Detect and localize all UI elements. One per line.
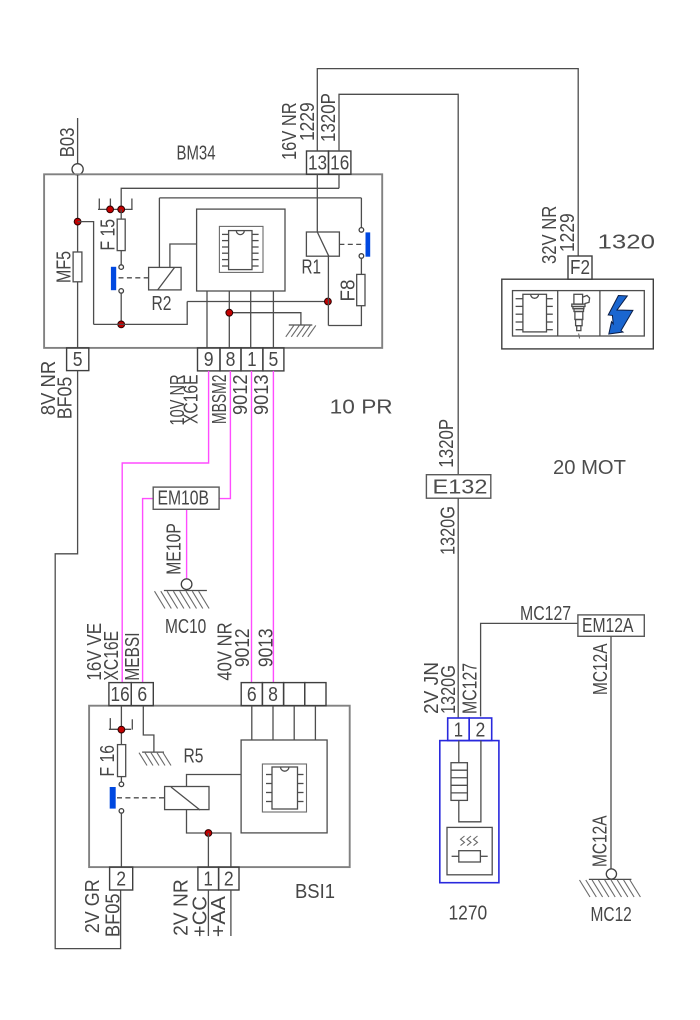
label 16V VE bbox=[84, 623, 106, 681]
label MC127 bbox=[520, 603, 571, 625]
caption 1320 bbox=[598, 232, 656, 254]
wire R2 top right to IC box bbox=[170, 244, 197, 267]
wire pin16 down (BSI) bbox=[120, 706, 122, 745]
label BSI1 bbox=[295, 881, 335, 903]
svg-text:2: 2 bbox=[224, 869, 234, 891]
label MC12A lower bbox=[590, 815, 612, 867]
wire pin16 to E132 (1320P) bbox=[339, 94, 458, 474]
pin 6 box (BSI left) bbox=[131, 683, 153, 706]
wire R2 top to F8 switch bbox=[159, 197, 361, 199]
wire 9013 (pin5b to BSI) bbox=[272, 371, 274, 683]
svg-text:8: 8 bbox=[268, 684, 278, 706]
svg-text:1270: 1270 bbox=[449, 903, 488, 925]
terminal tick right (BSI) bbox=[131, 719, 133, 729]
label R2 bbox=[152, 293, 172, 315]
label 1320G lower bbox=[438, 665, 460, 714]
ECU box BSI1 bbox=[89, 706, 350, 867]
label MC12A upper bbox=[590, 643, 612, 695]
fuse F8 bbox=[357, 274, 365, 305]
svg-text:1229: 1229 bbox=[557, 213, 579, 252]
op-amp U1 body bbox=[229, 231, 252, 270]
pin 2 box (1270) bbox=[469, 718, 492, 742]
svg-text:6: 6 bbox=[247, 684, 257, 706]
svg-text:2: 2 bbox=[476, 720, 486, 742]
junction dot bottom left node bbox=[118, 321, 125, 328]
label MBSM2 bbox=[209, 375, 231, 425]
wire blank pin2 to IC bbox=[314, 706, 316, 740]
fuse MF5 bbox=[73, 252, 82, 282]
divider 1320 cell1/2 bbox=[557, 291, 559, 336]
svg-text:MC10: MC10 bbox=[165, 616, 206, 638]
pin blank box 2 bbox=[305, 683, 326, 706]
label 16V NR bbox=[279, 102, 301, 160]
capacitor bar blue (R2 switch) bbox=[111, 267, 116, 290]
junction dot MF5 branch bbox=[74, 218, 81, 225]
ground bar (BSI) bbox=[142, 751, 164, 753]
pin blank box 1 bbox=[284, 683, 305, 706]
svg-text:1320P: 1320P bbox=[436, 419, 458, 468]
ground hatch (BSI) bbox=[139, 753, 171, 766]
svg-text:13: 13 bbox=[308, 153, 327, 175]
svg-text:1: 1 bbox=[454, 720, 463, 742]
wire 10V XC16E (pin9 to BSI pin16) bbox=[122, 371, 208, 683]
ground circle MC12 bbox=[606, 869, 616, 879]
pin 13 box (BM34 top) bbox=[307, 151, 329, 175]
wire R1 bottom bbox=[327, 256, 329, 325]
injector icon (1320) bbox=[572, 294, 590, 338]
label 2V JN bbox=[421, 662, 443, 714]
svg-text:EM12A: EM12A bbox=[582, 615, 634, 637]
wire 9012 (pin1 to BSI) bbox=[251, 371, 253, 683]
dashed link R1 to switch bbox=[339, 243, 364, 245]
label MF5 bbox=[54, 251, 76, 283]
op-amp U1 outer bbox=[219, 226, 263, 272]
label +AA bbox=[208, 895, 230, 937]
label R5 bbox=[184, 746, 204, 768]
wire MEBSI (EM10B to BSI pin6) bbox=[143, 499, 154, 683]
ground bar MC10 bbox=[164, 590, 207, 592]
svg-text:XC16E: XC16E bbox=[181, 375, 203, 425]
label 1270 bbox=[449, 903, 488, 925]
pin 6 box (BSI 40V) bbox=[241, 683, 262, 706]
svg-text:F 16: F 16 bbox=[97, 745, 119, 777]
wire switch to bottom node bbox=[120, 293, 122, 324]
junction dot terminal B bbox=[118, 206, 125, 213]
label F8 bbox=[338, 280, 360, 302]
svg-text:B03: B03 bbox=[57, 128, 79, 158]
switch contact upper (BSI) bbox=[119, 782, 124, 787]
wire MF5 from B03 circle bbox=[77, 175, 79, 252]
wire branch to left rail bbox=[78, 222, 94, 325]
pin 1 box (BM34) bbox=[241, 348, 263, 371]
pin 8 box bbox=[220, 348, 241, 371]
wire pin6 to ground (BSI) bbox=[143, 706, 154, 752]
svg-text:+AA: +AA bbox=[208, 895, 230, 937]
terminal tick left (BSI) bbox=[109, 718, 111, 729]
svg-text:1229: 1229 bbox=[297, 102, 319, 141]
svg-text:9013: 9013 bbox=[251, 375, 273, 416]
pin 9 box bbox=[198, 348, 221, 371]
svg-text:E132: E132 bbox=[433, 477, 488, 499]
wire horizontal to F15 top bbox=[121, 188, 339, 209]
label 10V NR bbox=[167, 375, 189, 426]
svg-text:9: 9 bbox=[204, 349, 214, 371]
svg-text:MC127: MC127 bbox=[460, 663, 482, 714]
ground hatch (BM34) bbox=[286, 325, 316, 336]
dashed link to R5 bbox=[117, 797, 165, 799]
svg-text:1320P: 1320P bbox=[318, 93, 340, 142]
svg-text:MC12: MC12 bbox=[591, 904, 632, 926]
svg-text:F 15: F 15 bbox=[98, 219, 120, 251]
pin 5 box (BM34 left) bbox=[67, 348, 89, 371]
resistor element (1270) bbox=[451, 763, 467, 801]
label XC16E (BSI) bbox=[101, 631, 123, 681]
pin 16 box (BSI top) bbox=[109, 683, 131, 706]
relay R2 coil bbox=[149, 267, 182, 290]
wire MBSM2 (pin8 to EM10B) bbox=[219, 371, 230, 499]
relay R1 coil bbox=[306, 232, 339, 256]
svg-text:5: 5 bbox=[73, 349, 83, 371]
wire R5 top to IC box bbox=[187, 775, 242, 787]
connector circle B03 bbox=[72, 164, 83, 175]
label MEBSI bbox=[122, 633, 144, 681]
splice E132 bbox=[426, 475, 490, 499]
wire F15 to switch bbox=[120, 251, 122, 265]
svg-text:8: 8 bbox=[226, 349, 236, 371]
label 8V NR bbox=[38, 361, 60, 416]
label 9013 (BM34) bbox=[251, 375, 273, 416]
wire dot to pin1 (BSI) bbox=[207, 833, 209, 867]
label 1229 bbox=[297, 102, 319, 141]
divider 1320 cell2/3 bbox=[599, 291, 601, 336]
wire MF5 to pin 5 bbox=[77, 282, 79, 348]
svg-text:1320G: 1320G bbox=[438, 506, 460, 555]
pin 8 box (BSI 40V) bbox=[262, 683, 283, 706]
svg-text:F2: F2 bbox=[570, 257, 590, 279]
label BM34 bbox=[177, 143, 216, 165]
svg-text:MBSM2: MBSM2 bbox=[209, 375, 231, 425]
capacitor bar blue (F8 switch) bbox=[366, 232, 371, 256]
wire to F8 switch bbox=[360, 198, 362, 228]
svg-text:ME10P: ME10P bbox=[164, 523, 186, 575]
svg-text:BSI1: BSI1 bbox=[295, 881, 335, 903]
op-amp U2 outer bbox=[262, 764, 306, 812]
wire pin16 down bbox=[338, 174, 340, 188]
op-amp U2 pins right bbox=[298, 775, 304, 802]
pin 1 box (1270) bbox=[448, 718, 470, 742]
svg-text:16: 16 bbox=[111, 684, 130, 706]
fuse F16 bbox=[118, 745, 126, 777]
wire F16 to switch bbox=[120, 777, 122, 782]
terminal bar (BSI) bbox=[109, 728, 131, 730]
svg-text:1320: 1320 bbox=[598, 232, 656, 254]
wire R1/F8 bottom U bbox=[328, 306, 361, 326]
svg-text:MF5: MF5 bbox=[54, 251, 76, 283]
svg-text:2: 2 bbox=[116, 869, 126, 891]
wire +AA bbox=[230, 890, 232, 936]
wire R5 bottom bbox=[187, 810, 231, 868]
wire 1320G (E132 down) bbox=[457, 498, 459, 718]
component box 1270 bbox=[440, 741, 499, 883]
switch contact upper (R2) bbox=[119, 265, 124, 270]
wire R2 top left bbox=[158, 198, 160, 268]
svg-text:MC12A: MC12A bbox=[590, 815, 612, 867]
svg-text:R5: R5 bbox=[184, 746, 204, 768]
switch contact lower (R2) bbox=[119, 289, 124, 294]
wire MC12A bbox=[610, 636, 612, 869]
wire pin13 to F2 (1229) bbox=[317, 69, 578, 256]
terminal bar above F15 bbox=[98, 208, 133, 210]
label F15 bbox=[98, 219, 120, 251]
wire switch to F8 bbox=[360, 258, 362, 274]
label 1320G upper bbox=[438, 506, 460, 555]
wire F15 lead bbox=[120, 209, 122, 219]
terminal tick right bbox=[131, 199, 133, 210]
wire blank pin1 to IC bbox=[293, 706, 295, 740]
wire 40V pin6 to IC bbox=[251, 706, 253, 740]
fuse F15 bbox=[117, 219, 125, 251]
caption 20 MOT bbox=[553, 457, 626, 479]
op-amp U2 pins left bbox=[266, 775, 272, 802]
label MC127 rotated bbox=[460, 663, 482, 714]
wire switch to pin2 (BSI) bbox=[120, 813, 122, 867]
ground bar MC12 bbox=[589, 878, 632, 880]
heater squiggles bbox=[461, 836, 478, 846]
wire +CC bbox=[207, 890, 209, 936]
label 40V NR bbox=[215, 622, 237, 680]
junction dot terminal (BSI) bbox=[118, 726, 125, 733]
label 9013 (BSI) bbox=[256, 628, 278, 667]
label BF05 (BM34) bbox=[55, 377, 77, 420]
svg-text:16: 16 bbox=[330, 153, 349, 175]
label 1229 (F2) bbox=[557, 213, 579, 252]
svg-text:F8: F8 bbox=[338, 280, 360, 302]
dashed link to R2 bbox=[119, 277, 149, 279]
terminal tick left bbox=[98, 199, 100, 210]
op-amp U1 pins left bbox=[222, 234, 229, 266]
ECU box BM34 bbox=[44, 174, 382, 348]
capacitor bar blue (BSI switch) bbox=[110, 787, 116, 809]
label 32V NR bbox=[539, 206, 561, 264]
node B03 label bbox=[57, 128, 79, 158]
junction dot line A / R1 bbox=[325, 298, 332, 305]
svg-text:BF05: BF05 bbox=[103, 893, 125, 937]
label 1320P bbox=[318, 93, 340, 142]
wire IC to pin 9 bbox=[206, 291, 208, 348]
svg-text:1320G: 1320G bbox=[438, 665, 460, 714]
svg-text:20 MOT: 20 MOT bbox=[553, 457, 626, 479]
svg-text:5: 5 bbox=[269, 349, 279, 371]
fuse box F2 bbox=[568, 256, 592, 279]
inner box 1320 bbox=[513, 291, 645, 336]
wire 40V pin8 to IC bbox=[272, 706, 274, 740]
svg-text:1: 1 bbox=[247, 349, 256, 371]
junction dot terminal A bbox=[107, 206, 114, 213]
svg-text:9012: 9012 bbox=[230, 375, 252, 416]
relay R5 coil bbox=[165, 787, 209, 811]
caption 10 PR bbox=[330, 397, 393, 419]
svg-text:6: 6 bbox=[137, 684, 147, 706]
label 9012 (BSI) bbox=[232, 628, 254, 667]
label +CC bbox=[190, 896, 212, 937]
label 2V GR bbox=[82, 879, 104, 933]
wire ME10P (EM10B to MC10) bbox=[186, 509, 188, 579]
pin 16 box (BM34 top) bbox=[329, 151, 351, 175]
svg-text:BF05: BF05 bbox=[55, 377, 77, 420]
wire IC to pin 1 bbox=[250, 291, 252, 348]
resistor (injector) bbox=[452, 851, 488, 862]
ground bar (BM34) bbox=[289, 324, 313, 326]
label MC10 bbox=[165, 616, 206, 638]
ground hatch MC10 bbox=[155, 591, 210, 608]
switch contact lower (F8) bbox=[359, 254, 364, 259]
pin 2 box (BSI bottom left) bbox=[110, 867, 133, 890]
svg-text:R1: R1 bbox=[302, 257, 322, 279]
wire bottom node horizontal bbox=[94, 302, 188, 325]
op-amp U2 body bbox=[272, 767, 298, 809]
terminal tick mid bbox=[109, 199, 111, 210]
IC carrier box (BM34) bbox=[197, 209, 285, 291]
svg-text:EM10B: EM10B bbox=[158, 488, 210, 510]
junction dot line B bbox=[226, 309, 233, 316]
wire line A to R1 bottom bbox=[187, 301, 328, 303]
wire IC to pin 8 bbox=[228, 291, 230, 348]
lightning bolt icon (1320) bbox=[608, 296, 633, 335]
wire resistor loop to pin2 bbox=[459, 741, 481, 822]
wire B03 vertical bbox=[77, 118, 79, 164]
label ME10P bbox=[164, 523, 186, 575]
svg-text:XC16E: XC16E bbox=[101, 631, 123, 681]
svg-text:1: 1 bbox=[204, 869, 213, 891]
junction dot R5 bottom bbox=[205, 830, 212, 837]
op-amp U1 pins right bbox=[252, 234, 259, 266]
wire pin1 to resistor bbox=[458, 741, 460, 763]
IC carrier box (BSI) bbox=[241, 740, 327, 833]
label 2V NR bbox=[171, 879, 193, 936]
label XC16E (BM34) bbox=[181, 375, 203, 425]
label 1320P (E132) bbox=[436, 419, 458, 468]
svg-text:MC127: MC127 bbox=[520, 603, 571, 625]
ground hatch MC12 bbox=[580, 880, 641, 897]
splice EM12A bbox=[578, 615, 644, 637]
pin 1 box (BSI bottom) bbox=[198, 867, 219, 890]
switch contact lower (BSI) bbox=[119, 809, 124, 814]
label MC12 bbox=[591, 904, 632, 926]
svg-text:BM34: BM34 bbox=[177, 143, 216, 165]
svg-text:10 PR: 10 PR bbox=[330, 397, 393, 419]
splice EM10B bbox=[153, 487, 219, 509]
label BF05 (BSI) bbox=[103, 893, 125, 937]
op-amp icon (1320) bbox=[516, 294, 553, 332]
switch contact upper (F8) bbox=[359, 228, 364, 233]
label F16 bbox=[97, 745, 119, 777]
wire line B to ground bbox=[229, 313, 301, 325]
label R1 bbox=[302, 257, 322, 279]
wire MC127 (pin2 to EM12A) bbox=[481, 623, 578, 716]
label 9012 (BM34) bbox=[230, 375, 252, 416]
svg-text:MEBSI: MEBSI bbox=[122, 633, 144, 681]
wire pin13 down to R1 bbox=[316, 174, 318, 232]
svg-text:2V GR: 2V GR bbox=[82, 879, 104, 933]
svg-text:MC12A: MC12A bbox=[590, 643, 612, 695]
svg-text:9013: 9013 bbox=[256, 628, 278, 667]
wire IC to pin 5b bbox=[272, 291, 274, 348]
wire BF05 rail bbox=[55, 371, 120, 949]
pin 5b box bbox=[263, 348, 284, 371]
ground circle MC10 bbox=[181, 579, 192, 590]
component box 1320 bbox=[502, 279, 654, 349]
svg-text:R2: R2 bbox=[152, 293, 172, 315]
svg-text:9012: 9012 bbox=[232, 628, 254, 667]
pin 2b box (BSI bottom) bbox=[219, 867, 239, 890]
injector body box bbox=[447, 827, 492, 874]
